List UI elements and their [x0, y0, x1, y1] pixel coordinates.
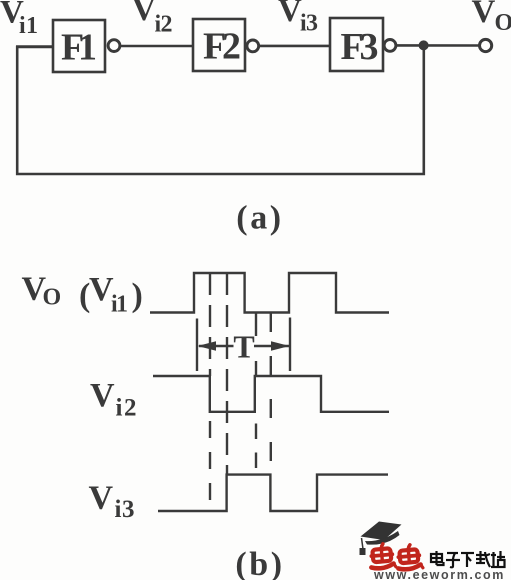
- svg-text:(a): (a): [236, 200, 283, 237]
- svg-text:i2: i2: [116, 395, 137, 422]
- svg-text:O: O: [43, 285, 62, 311]
- svg-text:): ): [132, 277, 143, 314]
- svg-text:www.eeworm.com: www.eeworm.com: [373, 568, 505, 580]
- svg-text:V: V: [90, 377, 115, 414]
- svg-text:i1: i1: [19, 13, 38, 39]
- svg-text:i3: i3: [115, 496, 135, 523]
- svg-text:F1: F1: [61, 27, 97, 69]
- svg-text:O: O: [495, 10, 511, 36]
- svg-text:(b): (b): [235, 546, 284, 580]
- svg-text:i2: i2: [155, 11, 173, 37]
- svg-text:F2: F2: [203, 26, 241, 68]
- svg-text:i1: i1: [111, 292, 128, 318]
- svg-text:i3: i3: [300, 11, 318, 37]
- svg-text:V: V: [278, 0, 302, 29]
- svg-text:V: V: [132, 0, 156, 28]
- svg-text:T: T: [233, 329, 254, 365]
- svg-text:F3: F3: [341, 26, 379, 68]
- svg-text:V: V: [472, 0, 496, 30]
- svg-text:V: V: [89, 480, 114, 517]
